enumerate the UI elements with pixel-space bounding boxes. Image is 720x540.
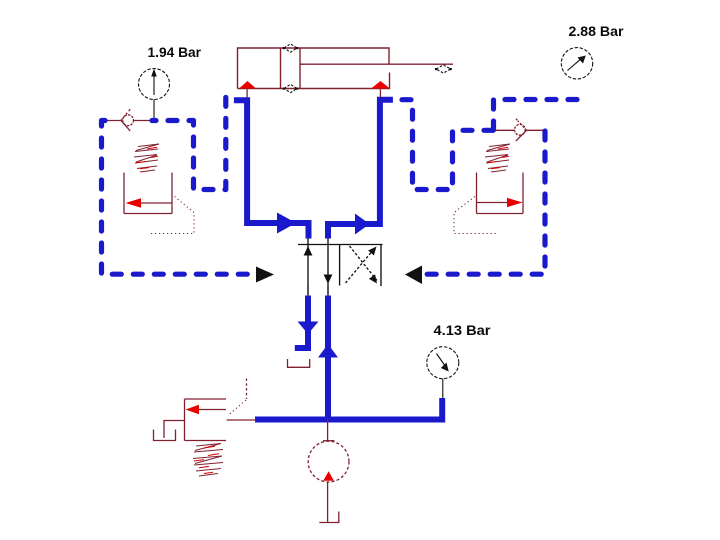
svg-text:2.88 Bar: 2.88 Bar (569, 24, 625, 39)
svg-text:4.13 Bar: 4.13 Bar (434, 323, 492, 338)
svg-text:1.94 Bar: 1.94 Bar (148, 45, 202, 60)
